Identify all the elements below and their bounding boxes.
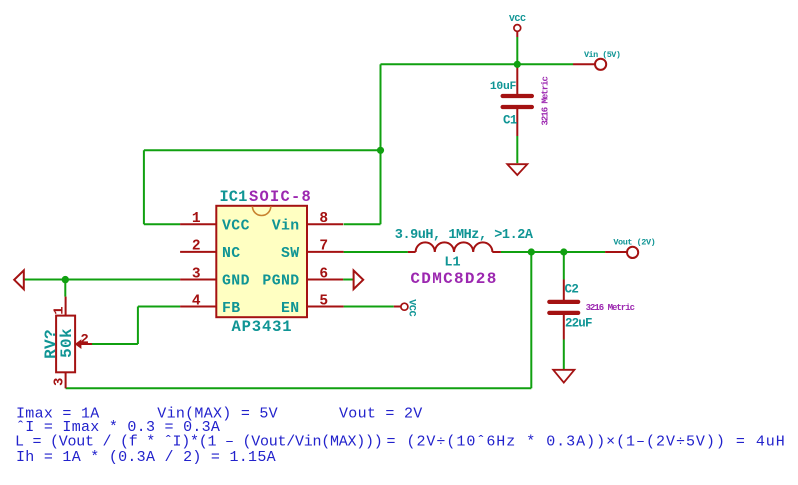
- svg-text:3216 Metric: 3216 Metric: [541, 76, 551, 125]
- svg-text:CDMC8D28: CDMC8D28: [410, 270, 497, 288]
- svg-text:IC1: IC1: [220, 188, 248, 206]
- svg-text:SOIC-8: SOIC-8: [249, 188, 312, 206]
- svg-text:VCC: VCC: [509, 13, 526, 24]
- svg-text:22uF: 22uF: [565, 317, 592, 331]
- svg-text:5: 5: [319, 293, 328, 309]
- svg-text:AP3431: AP3431: [232, 318, 293, 336]
- svg-text:VCC: VCC: [222, 218, 250, 234]
- svg-text:3: 3: [52, 378, 68, 386]
- svg-text:GND: GND: [222, 274, 250, 290]
- svg-text:PGND: PGND: [262, 274, 299, 290]
- svg-text:10uF: 10uF: [490, 81, 517, 93]
- svg-text:RV?: RV?: [42, 329, 60, 359]
- svg-text:7: 7: [319, 239, 328, 255]
- svg-text:3.9uH, 1MHz, >1.2A: 3.9uH, 1MHz, >1.2A: [395, 228, 534, 243]
- svg-text:C1: C1: [503, 113, 517, 127]
- svg-text:50k: 50k: [58, 328, 76, 358]
- svg-text:= (2V÷(10ˆ6Hz * 0.3A))×(1–(2V÷: = (2V÷(10ˆ6Hz * 0.3A))×(1–(2V÷5V)) = 4uH: [387, 434, 786, 451]
- svg-text:4: 4: [192, 293, 201, 309]
- svg-text:NC: NC: [222, 246, 241, 262]
- svg-text:8: 8: [319, 211, 328, 227]
- svg-text:C2: C2: [565, 283, 579, 297]
- svg-text:FB: FB: [222, 301, 241, 317]
- svg-text:Vout = 2V: Vout = 2V: [339, 406, 423, 423]
- svg-text:6: 6: [319, 266, 328, 282]
- svg-text:1: 1: [192, 211, 201, 227]
- svg-text:VCC: VCC: [405, 299, 416, 316]
- svg-text:Vin (5V): Vin (5V): [584, 50, 620, 60]
- svg-text:2: 2: [80, 332, 88, 348]
- svg-text:3216 Metric: 3216 Metric: [586, 303, 635, 313]
- svg-text:2: 2: [192, 239, 201, 255]
- svg-text:L1: L1: [444, 255, 460, 270]
- svg-text:EN: EN: [281, 301, 300, 317]
- svg-text:3: 3: [192, 266, 201, 282]
- svg-text:Ih = 1A * (0.3A / 2) = 1.15A: Ih = 1A * (0.3A / 2) = 1.15A: [16, 449, 276, 466]
- svg-text:SW: SW: [281, 246, 300, 262]
- svg-text:Vin: Vin: [272, 218, 300, 234]
- svg-text:Vout (2V): Vout (2V): [613, 238, 655, 248]
- svg-text:1: 1: [52, 306, 68, 314]
